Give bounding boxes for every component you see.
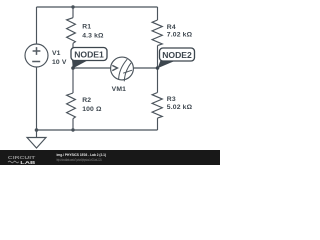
wire left from top rail to V1 [36,7,38,44]
svg-text:100 Ω: 100 Ω [82,106,102,113]
svg-text:LAB: LAB [20,160,35,165]
wire top rail [37,6,158,8]
svg-text:R2: R2 [82,97,91,104]
svg-text:5.02 kΩ: 5.02 kΩ [167,104,193,111]
junction node NODE2 [156,66,160,70]
svg-text:4.3 kΩ: 4.3 kΩ [82,32,104,39]
svg-text:R1: R1 [82,23,91,30]
wire bottom rail [37,129,158,131]
voltmeter VM1 [111,57,134,81]
svg-text:NODE2: NODE2 [162,50,192,60]
wire V1 bottom to bottom rail [36,67,38,130]
resistor R4 [152,7,162,68]
svg-text:R4: R4 [167,24,176,31]
svg-text:NODE1: NODE1 [74,50,104,60]
svg-text:img./ PHYSICS 1E03 - Lab 2 (2.: img./ PHYSICS 1E03 - Lab 2 (2.1) [57,152,107,157]
svg-text:V1: V1 [52,50,61,57]
svg-text:7.02 kΩ: 7.02 kΩ [167,32,193,39]
resistor R2 [67,68,76,130]
svg-text:R3: R3 [167,96,176,103]
node flag NODE2 [158,48,195,68]
svg-text:VM1: VM1 [112,86,126,93]
wire voltmeter to NODE2 [133,67,157,69]
resistor R3 [152,68,162,130]
node flag NODE1 [71,48,107,69]
svg-text:10 V: 10 V [52,59,67,66]
resistor R1 [67,7,76,68]
junction dot bottom of R2 [71,128,74,131]
junction dot ground [35,128,39,132]
junction node NODE1 [71,66,75,70]
banner [0,150,220,165]
ground [27,130,46,148]
wire NODE1 to voltmeter [73,67,111,69]
junction dot top of R1 [71,5,74,8]
voltage source V1 [25,44,48,67]
svg-text:http://circuitlab.com/c/7pv4w9: http://circuitlab.com/c/7pv4w9/physics-1… [57,158,103,162]
